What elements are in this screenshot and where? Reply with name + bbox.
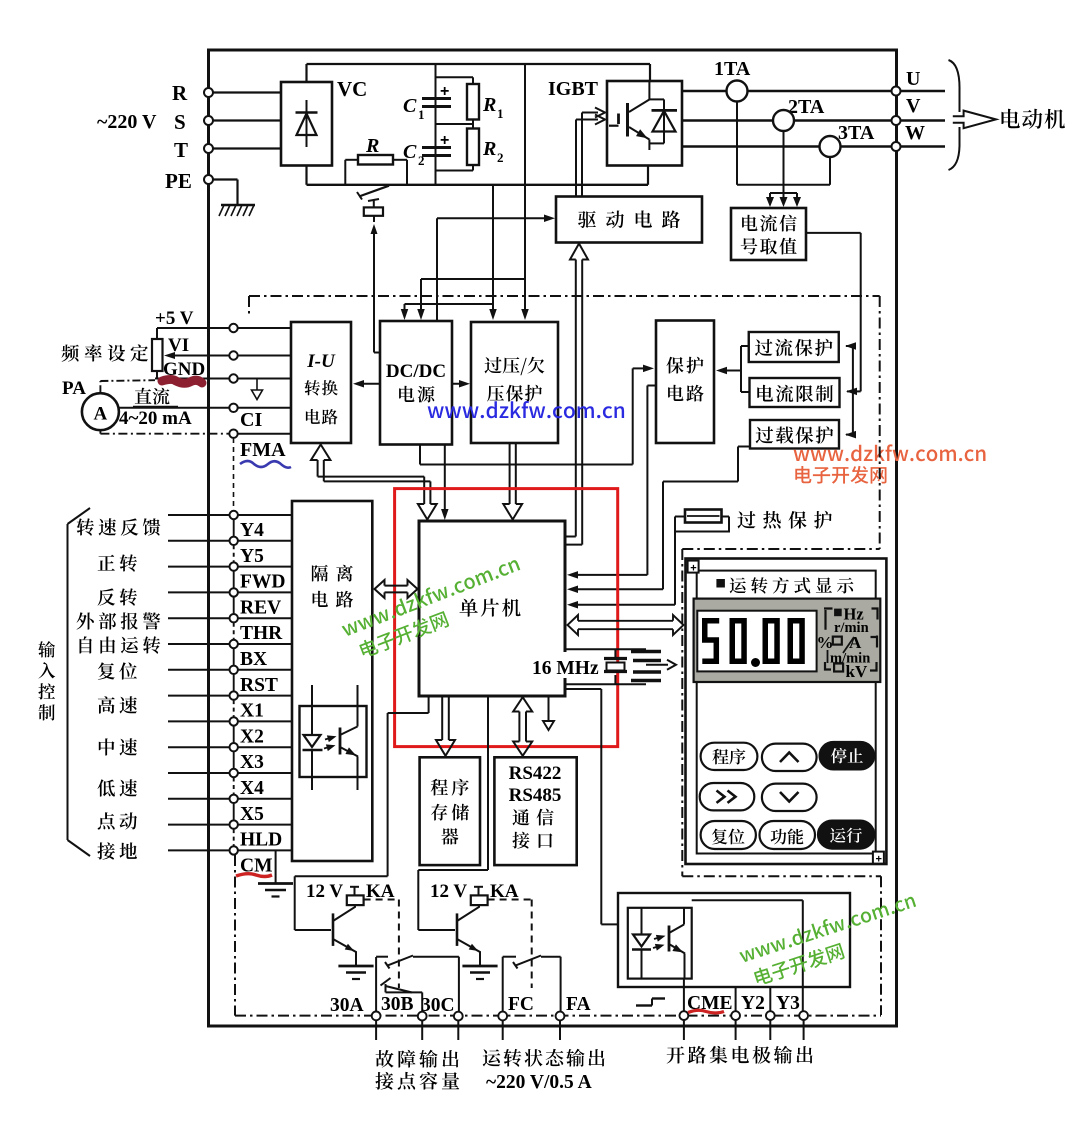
label run status output [483, 1049, 605, 1093]
terminal 30B [381, 994, 427, 1020]
CT secondary wires [737, 102, 830, 194]
button reset [701, 821, 756, 849]
svg-text:Y3: Y3 [776, 993, 800, 1014]
program memory box [420, 757, 480, 865]
label input control [38, 641, 55, 720]
svg-text:REV: REV [240, 597, 281, 618]
label 中速 [99, 738, 137, 755]
terminal FMA [229, 430, 237, 438]
CT signal arrows [766, 193, 801, 207]
button down [762, 784, 817, 811]
label 16MHz [531, 652, 599, 679]
terminal CME [680, 993, 733, 1020]
terminal X1 [230, 691, 264, 721]
terminal RST [230, 666, 278, 696]
outer enclosure frame [209, 50, 897, 1026]
resistor R1 [467, 77, 504, 124]
KA2 link dashed [488, 900, 532, 989]
svg-text:+: + [690, 563, 696, 575]
label 点动 [98, 812, 137, 829]
drive circuit box [556, 197, 702, 243]
svg-text:30C: 30C [421, 995, 455, 1016]
svg-text:PA: PA [62, 378, 86, 399]
label GND [163, 359, 205, 380]
svg-text:T: T [174, 138, 188, 162]
current limit box [750, 378, 840, 407]
svg-text:FC: FC [508, 994, 534, 1015]
watermark green mcu [340, 555, 531, 663]
label 转速反馈 [77, 518, 161, 535]
svg-text:R: R [365, 135, 379, 157]
LCD unit labels [817, 605, 878, 682]
wire protect to MCU [567, 386, 656, 579]
digital ground CME [636, 999, 665, 1006]
svg-text:+5 V: +5 V [155, 308, 194, 329]
terminal REV [230, 588, 282, 618]
label 正转 [98, 554, 137, 571]
terminal +5V [229, 324, 237, 332]
isolation circuit box [292, 501, 372, 861]
crystal load caps [631, 652, 676, 681]
svg-text:IGBT: IGBT [548, 78, 599, 100]
potentiometer freq set [62, 328, 163, 379]
out opto box [628, 908, 692, 979]
dashdot boundary top [249, 296, 880, 316]
label 高速 [98, 696, 137, 713]
panel outer frame [686, 559, 887, 865]
node C2 bottom to R2 [436, 170, 474, 172]
terminal Y3b [799, 1011, 808, 1020]
arrow MCU-RS bidirectional [513, 697, 532, 756]
dashdot boundary right lower [880, 876, 882, 1015]
button shift [700, 783, 755, 810]
RS422 RS485 box [494, 757, 576, 865]
out wires Y2 Y3 [736, 987, 771, 1011]
drive upward hollow arrow [0, 0, 1, 1]
MCU box [419, 521, 565, 696]
svg-text:DC/DC: DC/DC [386, 361, 446, 382]
IGBT module box [607, 81, 682, 166]
svg-text:C: C [403, 95, 417, 117]
svg-text:THR: THR [240, 623, 283, 644]
wire W phase [682, 145, 945, 147]
KA1 supply 12V [306, 881, 359, 902]
wire U phase [682, 90, 945, 92]
button program [701, 743, 758, 770]
resistor R precharge [345, 135, 407, 186]
capacitor C1 [403, 83, 451, 122]
label +5V [155, 308, 194, 329]
DC feed to DCDC right [417, 279, 525, 320]
svg-text:16 MHz: 16 MHz [532, 658, 599, 679]
protect circuit box [656, 321, 714, 444]
terminal V [892, 95, 922, 125]
CT 2TA [773, 96, 825, 131]
DC rail feed OVUV right [521, 64, 529, 320]
arrow IU-MCU bidirectional [311, 445, 437, 520]
drive signal lines to IGBT [576, 108, 605, 197]
output stubs fault [376, 1020, 560, 1040]
out opto wiring [684, 900, 803, 1011]
rectifier VC [281, 77, 367, 166]
label DC 4-20mA [119, 388, 192, 429]
svg-text:12 V: 12 V [306, 881, 343, 902]
label fault output [375, 1050, 459, 1090]
main DC rail bus [307, 166, 649, 185]
terminal X5 [230, 795, 265, 825]
label motor [1002, 109, 1066, 129]
arrow OVUV to MCU [503, 443, 522, 520]
wire OC-limit to protect [716, 346, 750, 392]
svg-text:+: + [440, 132, 449, 149]
svg-text:BX: BX [240, 649, 267, 670]
resistor R2 [467, 124, 504, 171]
wire CI [119, 408, 291, 431]
panel title [716, 577, 853, 594]
arrow MCU to memory [436, 696, 455, 756]
inner top bus wire [307, 64, 651, 82]
wire MCU to KA2 base [418, 696, 488, 930]
terminal PE [165, 169, 238, 205]
svg-text:kV: kV [846, 662, 868, 681]
svg-text:12 V: 12 V [430, 881, 467, 902]
terminal Y3 [766, 993, 800, 1020]
svg-text:Y2: Y2 [741, 993, 765, 1014]
IGBT freewheel diode [649, 99, 677, 143]
svg-text:U: U [906, 68, 920, 90]
terminal CI [229, 404, 237, 412]
terminal 30A [330, 995, 381, 1020]
Q2 emitter ground [462, 966, 497, 979]
input group bracket [68, 508, 91, 856]
terminal GND [229, 374, 237, 382]
bypass contact switch [357, 186, 389, 200]
dashdot panel bottom [682, 875, 881, 877]
output bracket [949, 60, 960, 170]
CT 3TA [820, 122, 875, 157]
CME red underline [688, 1010, 724, 1013]
OVUV protect box [471, 322, 558, 443]
Q1 emitter ground [338, 966, 373, 979]
dashdot panel left [681, 549, 683, 876]
svg-text:W: W [905, 122, 925, 144]
svg-text:Y4: Y4 [240, 520, 264, 541]
terminal X2 [230, 717, 264, 747]
svg-text:+: + [440, 83, 449, 100]
terminal VI [229, 351, 237, 359]
current signal box [731, 208, 806, 260]
CT 1TA [714, 58, 751, 102]
svg-text:3TA: 3TA [838, 122, 875, 144]
svg-text:FWD: FWD [240, 572, 286, 593]
dashdot boundary left [234, 855, 236, 1016]
out stubs open collector [684, 1020, 804, 1040]
crystal stub wires [565, 649, 646, 684]
terminal 30C [421, 995, 463, 1020]
arrow MCU-display bidirectional [568, 615, 684, 635]
svg-text:X1: X1 [240, 701, 264, 722]
meter bottom lead [100, 430, 229, 434]
CM ground [258, 850, 293, 896]
terminal X3 [230, 743, 265, 773]
crystal 16MHz [604, 649, 627, 684]
PA ammeter [62, 378, 119, 430]
transistor Q1 [333, 905, 356, 965]
label 复位 [98, 662, 137, 679]
analog ground marker [252, 379, 263, 400]
PE earth ground [219, 205, 255, 216]
contact 30B [381, 978, 423, 1011]
svg-text:X2: X2 [240, 726, 264, 747]
dashdot panel top [682, 548, 879, 550]
label thermal protect [738, 511, 832, 529]
terminal strip wires [168, 515, 292, 850]
IU converter box [291, 322, 351, 443]
terminal FC [498, 994, 534, 1020]
svg-text:R: R [482, 138, 496, 160]
watermark green bottom [738, 891, 925, 989]
optocoupler in isolation [300, 685, 367, 790]
wire DCDC to MCU [441, 445, 449, 520]
svg-text:VI: VI [168, 335, 189, 356]
svg-text:X5: X5 [240, 804, 264, 825]
DC feed to DCDC left [401, 304, 493, 320]
svg-text:V: V [906, 95, 921, 117]
svg-text:RS422: RS422 [509, 763, 562, 784]
svg-text:1: 1 [497, 106, 504, 121]
svg-text:S: S [174, 110, 186, 134]
svg-text:X3: X3 [240, 752, 264, 773]
isolation-MCU bidirectional arrow [375, 580, 418, 598]
svg-text:%: % [817, 633, 834, 652]
label 外部报警 [77, 612, 161, 629]
button stop [820, 742, 875, 769]
terminal HLD [230, 820, 283, 850]
svg-text:R: R [172, 81, 188, 105]
relay coil KA1 [347, 881, 395, 905]
LCD digits window [697, 611, 816, 672]
wire thermal to MCU [567, 533, 675, 609]
svg-text:RST: RST [240, 675, 278, 696]
terminal T [174, 138, 281, 162]
svg-text:30A: 30A [330, 995, 364, 1016]
wire VI wiper [164, 352, 291, 359]
arrow DCDC to IU [353, 380, 380, 388]
svg-text:~220 V: ~220 V [97, 111, 157, 133]
wire DC bus to drive circuit [437, 215, 555, 321]
terminal CM [230, 846, 273, 876]
label 自由运转 [80, 636, 161, 653]
svg-text:~220 V/0.5 A: ~220 V/0.5 A [486, 1072, 592, 1093]
LCD value 50.00 [702, 621, 802, 667]
terminal strip link column [233, 520, 235, 846]
terminal R [172, 81, 281, 105]
terminal U [892, 68, 921, 96]
button run [818, 821, 874, 849]
svg-text:FMA: FMA [240, 439, 286, 461]
label 低速 [97, 779, 137, 796]
label 反转 [98, 588, 137, 605]
capacitor C2 [403, 132, 451, 168]
terminal BX [230, 640, 268, 670]
actuator drive wire from DCDC [371, 224, 381, 353]
GND red scribble [162, 380, 202, 384]
label ~220 V [97, 111, 157, 133]
watermark blue [428, 401, 624, 418]
svg-text:X4: X4 [240, 778, 264, 799]
contact FC-FA [503, 956, 561, 1012]
svg-text:4~20 mA: 4~20 mA [119, 408, 192, 429]
wire DCDC to protect [420, 365, 654, 465]
wire +5V [157, 327, 291, 329]
svg-text:2: 2 [497, 150, 504, 165]
terminal FWD [230, 562, 286, 592]
terminal THR [230, 614, 284, 644]
terminal X4 [230, 769, 265, 799]
terminal column dashes [233, 438, 235, 510]
transistor Q2 [457, 905, 480, 965]
terminal FA [556, 994, 591, 1020]
arrow DCDC to OVUV [452, 380, 470, 388]
svg-text:CI: CI [240, 409, 262, 431]
relay coil KA2 [471, 881, 519, 905]
svg-text:HLD: HLD [240, 830, 282, 851]
svg-text:I-U: I-U [306, 351, 336, 372]
terminal S [174, 110, 281, 134]
dashdot boundary bottom [235, 1015, 881, 1017]
svg-text:RS485: RS485 [509, 785, 562, 806]
svg-text:+: + [876, 854, 882, 866]
contact actuator [364, 199, 383, 222]
wire GND [155, 378, 291, 380]
overload box [750, 420, 839, 449]
svg-text:A: A [94, 404, 108, 425]
svg-text:Y5: Y5 [240, 546, 264, 567]
CM red underline [236, 874, 272, 877]
meter top lead [100, 380, 155, 393]
FMA blue underline [240, 461, 291, 468]
terminal W [892, 122, 926, 151]
MCU aux down arrow [543, 696, 554, 730]
label VI [168, 335, 189, 356]
wire FMA [238, 434, 291, 461]
node C1 top to R1 [436, 76, 474, 78]
DC bus vertical node [435, 64, 437, 185]
out module box [618, 893, 850, 987]
terminal Y5 [230, 537, 265, 567]
svg-text:30B: 30B [381, 994, 414, 1015]
watermark red [794, 444, 986, 483]
svg-text:VC: VC [337, 77, 367, 101]
svg-text:R: R [482, 94, 496, 116]
label open collector output [667, 1046, 813, 1064]
svg-text:2: 2 [418, 153, 425, 168]
button up [762, 744, 817, 771]
label 接地 [97, 842, 137, 859]
terminal Y4 [230, 511, 265, 541]
svg-text:PE: PE [165, 169, 192, 193]
red highlight box [395, 489, 618, 747]
contact 30A-30C [376, 956, 459, 1012]
svg-text:1: 1 [418, 107, 425, 122]
wire MCU to out opto [565, 689, 618, 924]
overcurrent box [749, 332, 839, 362]
svg-text:FA: FA [566, 994, 591, 1015]
KA1 link dashed [364, 900, 399, 989]
DCDC power box [380, 321, 452, 445]
LCD gray panel [694, 599, 881, 682]
wire MCU to KA1 base [295, 696, 429, 930]
IGBT transistor symbol [609, 81, 649, 150]
wire V phase [682, 119, 945, 121]
terminal Y2 [731, 993, 765, 1020]
svg-text:1TA: 1TA [714, 58, 751, 80]
KA2 supply 12V [430, 881, 483, 902]
DC rail feed OVUV left [489, 185, 497, 320]
node mid C1C2-R1R2 [436, 123, 474, 125]
wire overload to MCU [567, 447, 750, 594]
IGBT label [548, 78, 599, 100]
button function [760, 821, 816, 849]
dashdot boundary right upper [879, 296, 881, 549]
panel corner screws [688, 561, 884, 866]
motor arrow [953, 111, 996, 129]
current signal output wire [806, 233, 861, 438]
thermal sensor [675, 510, 729, 532]
